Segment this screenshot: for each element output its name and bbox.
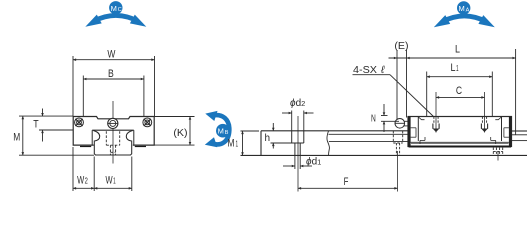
svg-text:T: T bbox=[33, 118, 39, 130]
svg-text:1: 1 bbox=[236, 140, 239, 149]
svg-text:4-SX: 4-SX bbox=[353, 64, 377, 76]
svg-text:C: C bbox=[456, 85, 462, 97]
svg-text:W: W bbox=[106, 175, 114, 187]
svg-text:ℓ: ℓ bbox=[380, 64, 385, 76]
svg-text:ϕd1: ϕd1 bbox=[306, 157, 321, 168]
svg-text:W: W bbox=[77, 175, 85, 187]
svg-text:L: L bbox=[451, 62, 456, 74]
svg-text:A: A bbox=[466, 7, 470, 13]
svg-text:M: M bbox=[459, 4, 465, 13]
svg-text:N: N bbox=[371, 113, 376, 124]
svg-text:B: B bbox=[225, 130, 229, 136]
svg-text:M: M bbox=[13, 132, 20, 144]
svg-text:M: M bbox=[111, 4, 117, 13]
svg-text:(K): (K) bbox=[173, 127, 187, 139]
svg-text:2: 2 bbox=[85, 177, 89, 186]
svg-text:M: M bbox=[218, 127, 224, 136]
svg-text:1: 1 bbox=[456, 64, 459, 73]
svg-text:W: W bbox=[107, 49, 115, 61]
svg-text:h: h bbox=[265, 133, 271, 144]
svg-text:ϕd2: ϕd2 bbox=[290, 98, 305, 109]
svg-text:L: L bbox=[455, 44, 460, 56]
svg-text:F: F bbox=[344, 176, 349, 188]
svg-text:C: C bbox=[118, 7, 122, 13]
svg-text:B: B bbox=[108, 68, 114, 80]
svg-text:1: 1 bbox=[113, 177, 116, 186]
svg-text:(E): (E) bbox=[394, 40, 408, 52]
svg-text:M: M bbox=[228, 138, 235, 150]
